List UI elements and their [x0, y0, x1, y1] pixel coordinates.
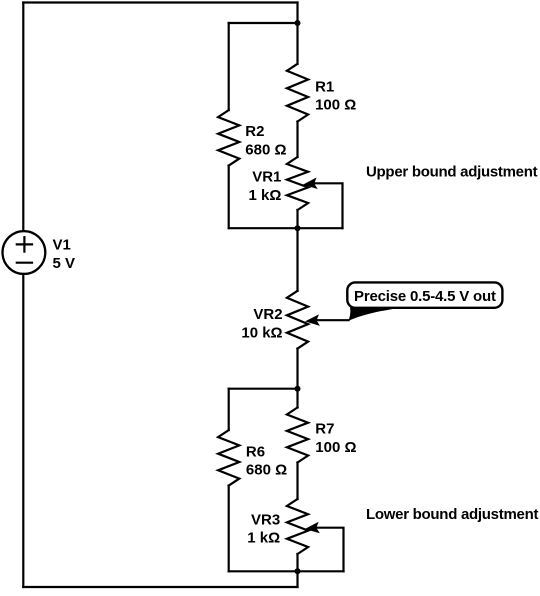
voltage source V1 circle	[3, 231, 46, 274]
wire upper branch bottom	[229, 227, 343, 229]
svg-text:Lower bound adjustment: Lower bound adjustment	[366, 506, 538, 523]
wire R7 to VR3	[296, 463, 298, 500]
resistor R7 100 ohm	[287, 408, 308, 463]
svg-text:680 Ω: 680 Ω	[245, 141, 286, 158]
VR2 wiper arrow	[304, 314, 319, 327]
svg-text:R1: R1	[315, 78, 334, 95]
svg-text:5 V: 5 V	[53, 255, 76, 272]
svg-text:680 Ω: 680 Ω	[246, 462, 287, 479]
wire R2 to upper branch bottom	[228, 166, 230, 229]
resistor R1 100 ohm	[287, 64, 308, 122]
resistor R2 680 ohm	[218, 110, 239, 166]
svg-text:10 kΩ: 10 kΩ	[241, 325, 282, 342]
wire left vertical lower (V1 to bottom)	[22, 274, 24, 587]
svg-text:V1: V1	[53, 237, 71, 254]
wire lower branch top	[229, 388, 298, 390]
wire VR1 to VR2 through node	[296, 210, 298, 291]
wire R6 to lower branch bottom	[228, 486, 230, 572]
callout tail	[348, 307, 406, 321]
wire VR2 wiper	[316, 319, 349, 321]
wire bottom horizontal	[23, 586, 297, 588]
node junction lower branch bottom	[295, 568, 301, 574]
wire VR2 to R7 through node	[296, 349, 298, 408]
VR1 wiper arrow	[302, 178, 318, 191]
wire VR1 wiper return	[314, 183, 343, 228]
node junction top (branch/main)	[295, 20, 301, 26]
wire upper branch left vertical (to R2)	[228, 23, 230, 110]
node junction lower branch top	[295, 386, 301, 392]
wire top horizontal	[23, 1, 297, 3]
wire VR3 wiper return	[316, 528, 344, 572]
wire upper branch top	[229, 22, 298, 24]
wire main top (top wire to R1)	[296, 3, 298, 64]
svg-text:100 Ω: 100 Ω	[315, 439, 356, 456]
V1 minus sign	[17, 262, 32, 264]
wire R1 to VR1	[296, 122, 298, 158]
resistor R6 680 ohm	[218, 430, 239, 486]
svg-text:R2: R2	[245, 123, 264, 140]
svg-text:Upper bound adjustment: Upper bound adjustment	[366, 163, 538, 180]
potentiometer VR2 10 kohm element	[287, 291, 308, 349]
wire left vertical upper (top to V1)	[22, 3, 24, 232]
wire VR3 to bottom	[296, 554, 298, 587]
wire lower branch left vertical (to R6)	[228, 389, 230, 430]
svg-text:1 kΩ: 1 kΩ	[247, 530, 280, 547]
VR3 wiper arrow	[304, 522, 320, 535]
svg-text:Precise 0.5-4.5 V out: Precise 0.5-4.5 V out	[354, 288, 496, 305]
potentiometer VR3 1 kohm element	[287, 499, 308, 554]
svg-text:VR2: VR2	[253, 306, 282, 323]
potentiometer VR1 1 kohm element	[287, 157, 308, 210]
wire lower branch bottom	[229, 570, 344, 572]
svg-text:VR3: VR3	[251, 511, 280, 528]
svg-text:1 kΩ: 1 kΩ	[249, 187, 282, 204]
svg-text:100 Ω: 100 Ω	[315, 97, 356, 114]
node junction upper branch bottom	[295, 225, 301, 231]
svg-text:R7: R7	[315, 421, 334, 438]
V1 plus sign	[17, 243, 32, 245]
svg-text:R6: R6	[246, 443, 265, 460]
svg-text:VR1: VR1	[252, 169, 281, 186]
callout bubble Precise 0.5-4.5 V out	[347, 282, 502, 307]
